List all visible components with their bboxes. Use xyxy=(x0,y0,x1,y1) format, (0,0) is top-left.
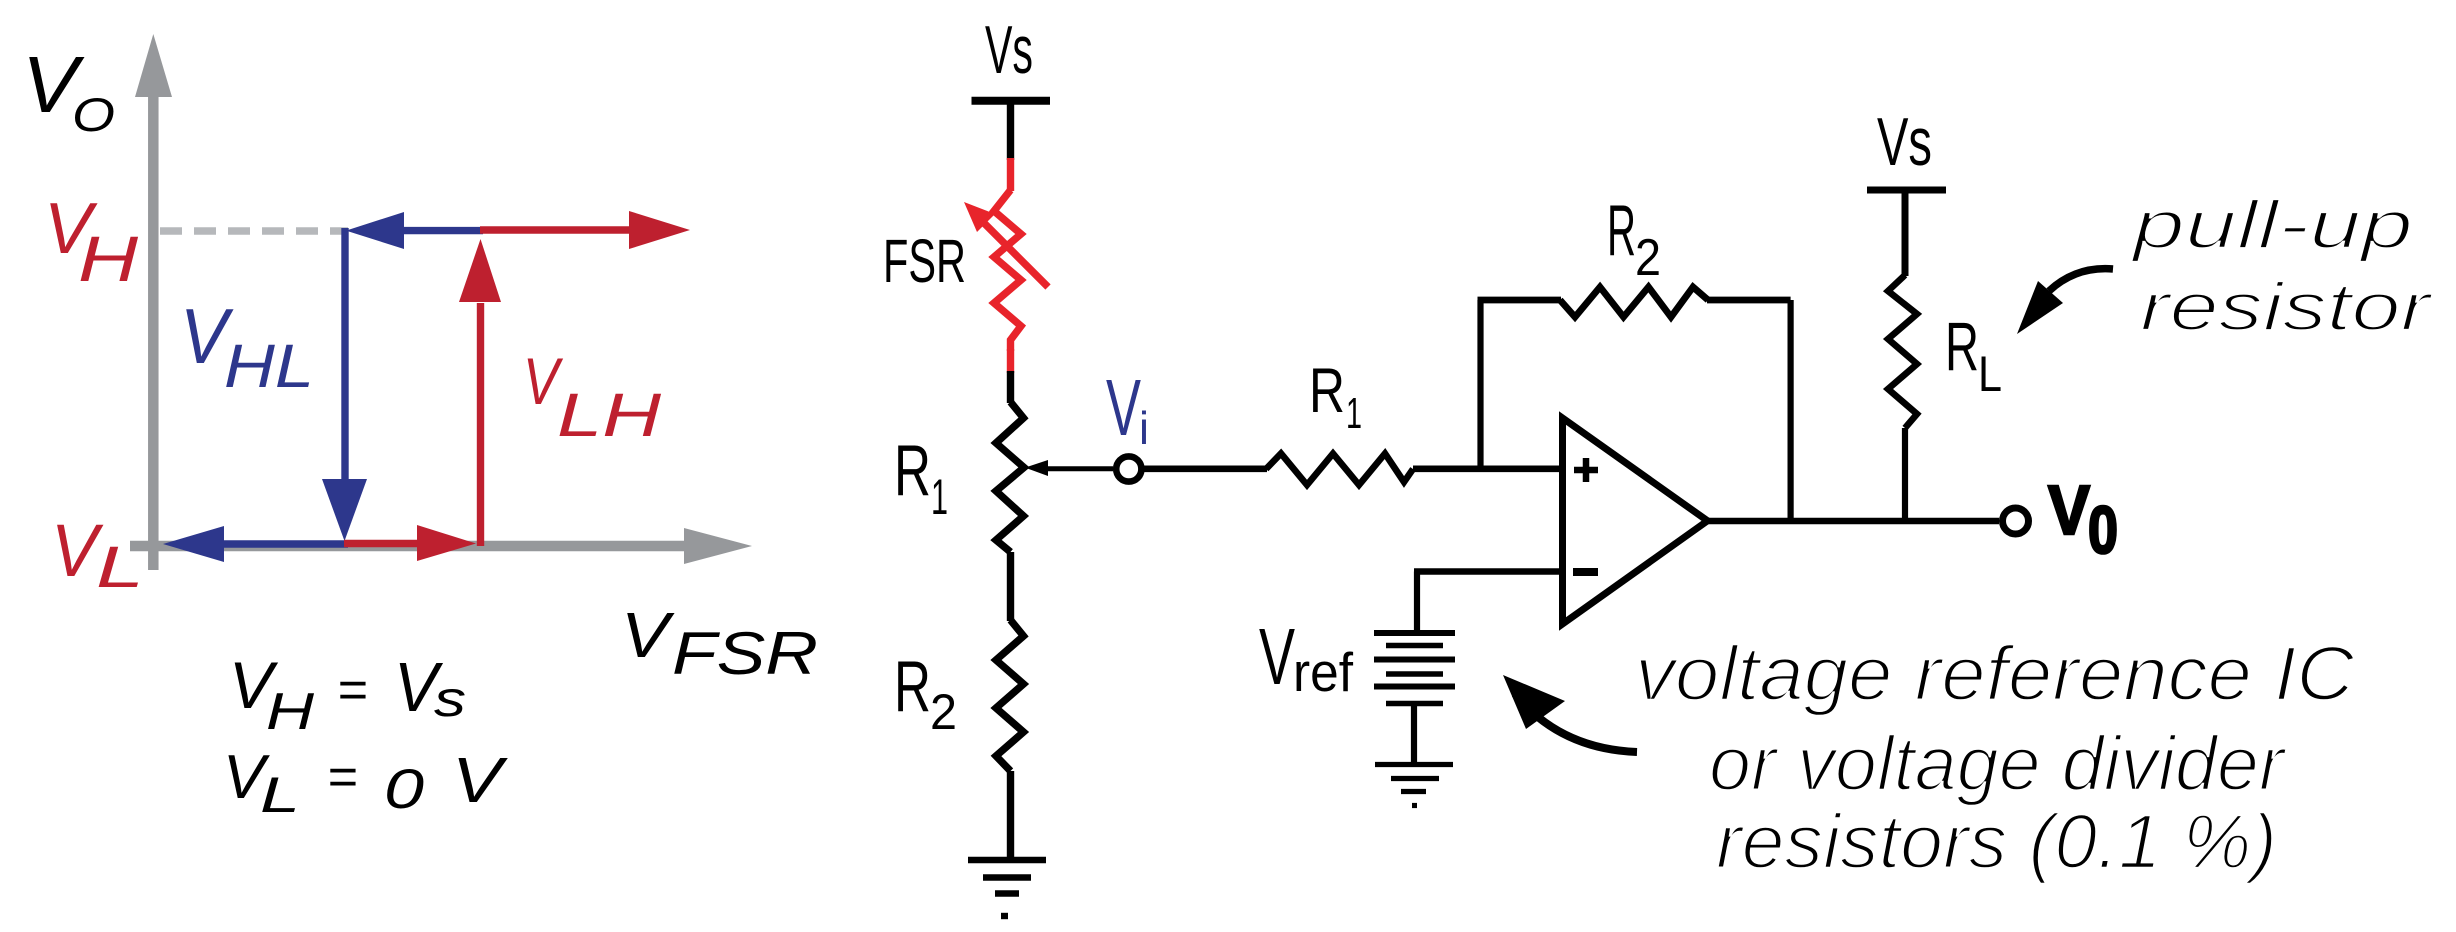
label Vfsr xyxy=(621,599,818,687)
resistor R2 vertical xyxy=(996,620,1024,771)
output wire xyxy=(1705,518,1999,525)
svg-text:1: 1 xyxy=(931,469,948,525)
svg-text:i: i xyxy=(1139,402,1149,454)
label VLH xyxy=(523,344,662,449)
label VH xyxy=(44,189,139,295)
svg-text:resistors (0.1 %): resistors (0.1 %) xyxy=(1716,799,2277,885)
power Vs label pull-up xyxy=(1877,104,1932,180)
svg-text:voltage reference IC: voltage reference IC xyxy=(1635,631,2355,717)
wire node Vi to input resistor R1 xyxy=(1141,465,1267,472)
resistor RL pull-up xyxy=(1888,275,1917,428)
wire R1 to op-amp noninverting input xyxy=(1413,465,1560,472)
wire RL to output xyxy=(1902,428,1908,521)
svg-text:H: H xyxy=(78,223,139,295)
node V0 circle xyxy=(2003,508,2029,534)
red trace low segment with right arrow xyxy=(344,525,476,561)
svg-text:R: R xyxy=(1309,356,1345,426)
svg-text:0: 0 xyxy=(2088,493,2118,568)
svg-text:or voltage divider: or voltage divider xyxy=(1709,721,2287,807)
node Vi circle xyxy=(1116,456,1141,481)
power Vs label divider xyxy=(985,12,1033,88)
wire FSR to R1 xyxy=(1007,349,1014,403)
label Vo xyxy=(22,40,115,141)
wire R1 to R2 xyxy=(1007,552,1014,621)
annotation voltage reference IC text xyxy=(1635,631,2355,885)
wire Vs to RL xyxy=(1902,190,1909,276)
equation VL = 0 V xyxy=(223,743,508,823)
FSR variable resistor xyxy=(964,190,1048,351)
svg-text:1: 1 xyxy=(1346,389,1362,438)
svg-text:resistor: resistor xyxy=(2140,269,2433,345)
graph Y axis Vo xyxy=(135,34,172,570)
label V0 xyxy=(2048,471,2118,568)
label RL xyxy=(1945,308,2002,402)
annotation arrow to RL xyxy=(2017,269,2113,334)
svg-text:FSR: FSR xyxy=(672,620,818,687)
label VL xyxy=(51,509,144,600)
battery Vref xyxy=(1374,633,1455,764)
blue trace low segment with left arrow xyxy=(163,526,348,562)
wire Vs to FSR xyxy=(1007,100,1014,191)
power Vs bar divider xyxy=(972,97,1051,105)
label VHL xyxy=(180,292,314,400)
resistor R2 feedback xyxy=(1560,287,1708,317)
label Vref xyxy=(1259,612,1354,703)
svg-text:pull-up: pull-up xyxy=(2130,187,2413,263)
svg-text:0: 0 xyxy=(384,757,424,820)
ground Vref xyxy=(1375,765,1453,806)
svg-text:=: = xyxy=(327,748,357,806)
svg-text:L: L xyxy=(260,767,300,823)
equation VH = Vs xyxy=(229,648,466,741)
svg-text:V: V xyxy=(621,599,675,671)
label R2 divider xyxy=(894,647,957,740)
power Vs bar pull-up xyxy=(1867,187,1946,194)
svg-text:FSR: FSR xyxy=(883,227,966,295)
feedback wire right xyxy=(1707,300,1791,521)
tap arrow from node Vi to R1 xyxy=(1025,460,1113,476)
svg-text:V: V xyxy=(452,744,508,816)
svg-text:Vs: Vs xyxy=(985,12,1033,88)
svg-text:V: V xyxy=(1259,612,1295,701)
annotation pull-up resistor text xyxy=(2130,187,2433,345)
ground divider xyxy=(968,860,1046,916)
resistor R1 vertical xyxy=(996,402,1024,552)
svg-text:=: = xyxy=(337,661,367,719)
blue trace falling segment VHL with down arrow xyxy=(322,228,367,541)
svg-text:2: 2 xyxy=(1635,229,1661,287)
svg-text:R: R xyxy=(894,647,931,727)
svg-text:L: L xyxy=(96,535,144,600)
svg-text:HL: HL xyxy=(224,332,314,400)
op-amp minus pin xyxy=(1573,568,1598,576)
label R1 divider xyxy=(894,431,948,525)
svg-text:O: O xyxy=(72,88,115,141)
wire R2 to ground xyxy=(1007,771,1014,860)
label Vi xyxy=(1106,363,1149,454)
svg-text:LH: LH xyxy=(557,381,662,449)
red trace high segment with right arrow xyxy=(480,211,690,249)
graph X axis Vfsr xyxy=(130,528,752,564)
svg-text:2: 2 xyxy=(930,684,957,740)
blue trace high segment with left arrow xyxy=(346,212,483,249)
wire inverting input to Vref xyxy=(1414,572,1560,635)
red trace rising segment VLH with up arrow xyxy=(459,239,501,546)
label R1 input xyxy=(1309,356,1362,438)
svg-text:R: R xyxy=(1607,191,1636,271)
feedback wire left and top xyxy=(1478,300,1562,469)
svg-text:ref: ref xyxy=(1293,641,1354,703)
svg-text:H: H xyxy=(266,683,315,741)
dashed VH level line xyxy=(160,227,348,235)
svg-text:V: V xyxy=(2048,471,2090,549)
svg-text:R: R xyxy=(1945,308,1979,385)
op-amp U1 xyxy=(1563,418,1708,624)
svg-text:V: V xyxy=(1106,363,1141,452)
resistor R1 input xyxy=(1266,454,1413,486)
svg-text:L: L xyxy=(1978,346,2002,402)
label FSR xyxy=(883,227,966,295)
svg-text:R: R xyxy=(894,431,931,511)
op-amp plus pin xyxy=(1574,458,1598,482)
annotation arrow to Vref xyxy=(1503,675,1637,752)
label R2 feedback xyxy=(1607,191,1661,287)
svg-text:s: s xyxy=(434,671,466,727)
svg-text:Vs: Vs xyxy=(1877,104,1932,180)
